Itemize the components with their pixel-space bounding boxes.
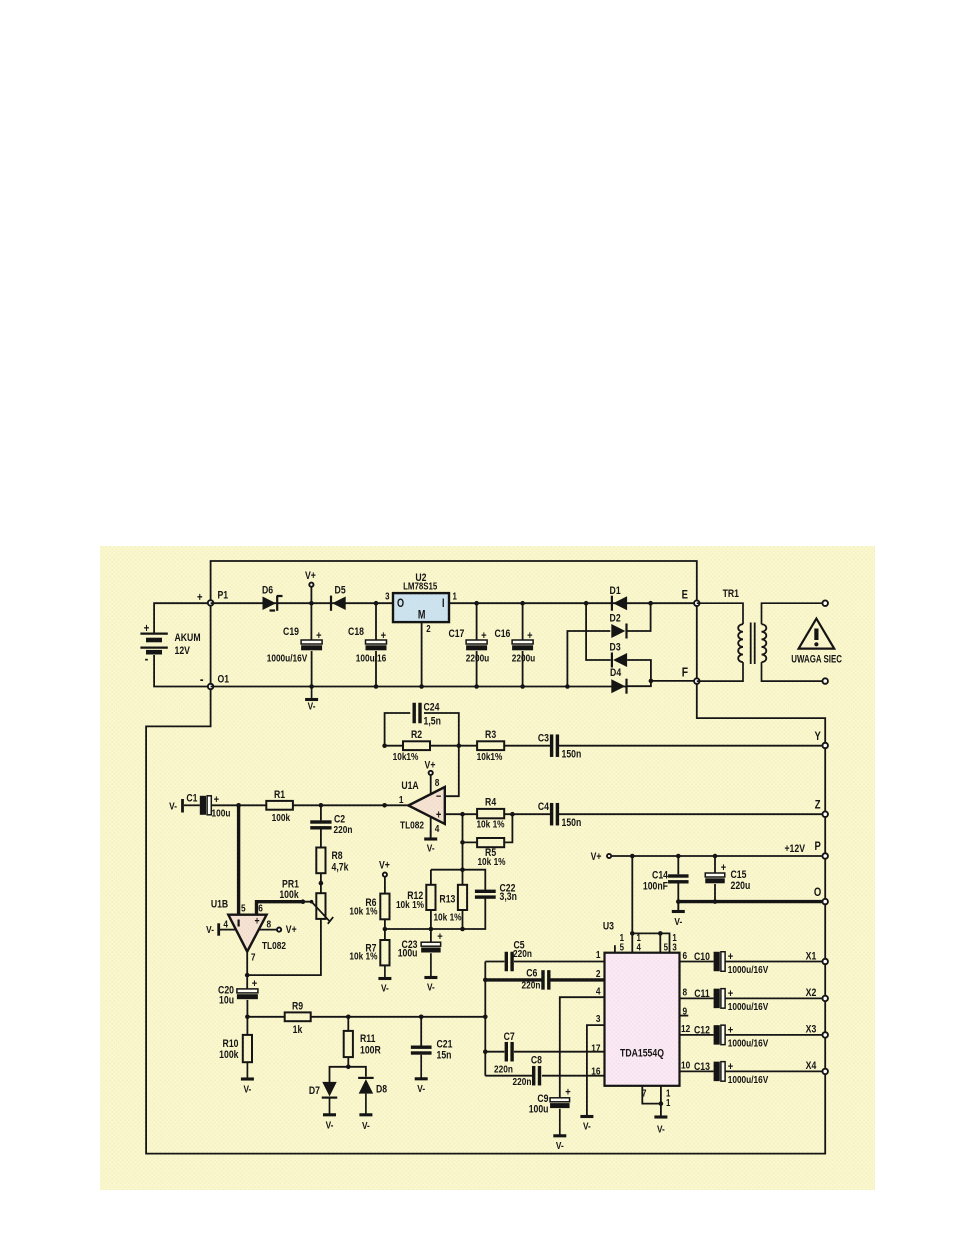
junction bus / C7 row [483,1049,488,1054]
resistor R3 [477,741,504,750]
wire: R2 row [385,745,478,747]
junction network top / R13 [460,867,465,872]
terminal Z [822,811,828,817]
wire: C16 stubs [522,603,524,686]
capacitor C11 [714,988,734,1008]
junction R9 row / input bus [483,1015,488,1020]
wire: C1 to R1 to U1A [211,804,409,806]
capacitor C24 [413,703,422,724]
wire: U3 pin3 to ground [587,1025,605,1116]
junction M/bottom rail [419,684,424,689]
junction PR1 wiper / pin6 wire [301,899,306,904]
wire: U3 pin7 and pin11 to ground [642,1086,661,1117]
resistor R10 [243,1035,252,1062]
ground U1A pin 4 [424,830,437,855]
junction R12 bottom / C23 [429,927,434,932]
op-amp U1B [228,915,266,952]
potentiometer PR1 wiper arrow [304,900,334,924]
wire: pin10 to C13 [680,1070,714,1072]
junction C19/bottom rail [309,684,314,689]
wire: network top row [431,870,485,891]
wire: U1B pin8 stub [259,929,277,931]
capacitor C5 [505,952,514,972]
terminal O [822,899,828,905]
junction C14 / O rail [676,899,681,904]
capacitor C15 [705,862,726,883]
junction C17 top [474,601,479,606]
V+ terminal U1A pin8 [429,771,433,775]
ground below R10 [241,1062,254,1096]
wire: C5 row [485,961,604,963]
diode D5 [331,596,346,611]
capacitor C6 [541,970,550,990]
V+ terminal above D5 [309,583,313,587]
transformer TR1 core [751,623,755,665]
junction plus input / R5 branch [460,812,465,817]
wire: O rail (bold) [678,900,822,903]
diode D1 [612,596,627,611]
junction U1B output / PR1 bottom [245,973,250,978]
wire: battery positive branch [154,603,211,632]
resistor R12 [426,885,435,910]
junction C1/R1/U1B pin5 [236,803,241,808]
wire: V+ rail to P terminal [612,855,822,857]
wire: D3 branch from top rail [586,603,611,660]
wire: bottom rail jog to F [626,681,697,686]
wire: V+ stub down to rail and C19 [310,587,312,640]
diode D7 [322,1082,338,1098]
wire: C24 right leg [424,713,459,796]
terminal X4 [822,1069,828,1075]
ground below C23 [424,953,437,994]
capacitor C23 [421,932,443,953]
capacitor C1 negative end bar [181,799,184,813]
resistor R11 [344,1031,353,1057]
wire: U1B pin6 to PR1 wiper (bold) [257,902,304,915]
junction bottom rail / D2 branch [565,684,570,689]
ground below D7 [323,1098,336,1132]
capacitor C9 [550,1087,571,1108]
terminal O1 [208,684,214,690]
wire: V+ to R6 [384,877,386,894]
wire: C14 bottom to O rail and ground [677,884,679,912]
resistor R7 [380,940,389,965]
wire: D2 row [567,603,650,686]
junction pin5 top [658,931,663,936]
junction R9 row / C21 [419,1015,424,1020]
wire: C3 to terminal Y [558,745,822,747]
diode D8 [358,1078,374,1094]
amplifier U3 TDA1554Q box [605,953,680,1086]
capacitor C1 [200,794,219,815]
capacitor C10 [714,951,734,971]
capacitor C22 [475,890,496,899]
wire: C19 to bottom rail [311,651,313,687]
battery AKUM 12V [140,634,167,653]
junction V+ rail / C14 [676,854,681,859]
junction R6/R7/network [383,927,388,932]
diode D6 [263,596,278,611]
junction pin7/pin11 [659,1101,664,1106]
wire: R12 top stub [430,870,432,885]
resistor R13 [458,885,467,910]
wire: R5 branch vertical [462,814,464,870]
ground U3 pins 7 11 [654,1117,667,1136]
wire: battery negative branch [154,655,211,687]
wire: C11 to X2 [725,997,822,999]
wire: bottom rail O1 to D4 [211,686,626,688]
junction C15 / O rail [713,899,718,904]
junction C20 / R9 row [245,1015,250,1020]
junction C17 bottom [474,684,479,689]
wire: R1 node down to C2 [320,805,322,820]
capacitor C2 [310,820,331,829]
capacitor C14 [668,874,689,883]
wire: C10 to X1 [725,961,822,963]
wire: U1B output down to C20 [246,952,248,989]
transformer TR1 secondary-side connection wires [762,603,822,681]
junction R1 row / R2 left leg [382,803,387,808]
wire: R9 node to R11 [347,1017,349,1031]
capacitor C19 [301,631,322,651]
wire: R12 bottom stub [430,910,432,929]
wire: U1A V- stub [430,816,432,839]
wire: to D7 [330,1067,349,1083]
wire: R6 to R7 [384,919,386,940]
junction R11 / D7 / D8 [346,1065,351,1070]
terminal X3 [822,1032,828,1038]
diode D3 [612,653,627,668]
wire: C18 to bottom rail [375,651,377,687]
resistor R4 [477,809,504,818]
junction C16 bottom [520,684,525,689]
terminal E [694,600,700,606]
terminal X2 [822,996,828,1002]
wire: C6 row (bold) [485,978,604,981]
resistor R1 [266,801,293,810]
capacitor C7 [505,1042,514,1062]
junction R5 left [460,840,465,845]
wire: R13 bottom stub [462,910,464,929]
wire: U3 pin4 to C9 [560,997,605,1098]
junction C18 top rail [374,601,379,606]
transformer TR1 left winding [738,624,743,662]
wire: R9 row [247,1016,485,1018]
wire: C4 to terminal Z [558,813,822,815]
terminal X1 [822,959,828,965]
junction R4 right / R5 return [510,812,515,817]
terminal TR1 mains top [822,600,828,606]
wire: R5 row [463,814,513,842]
wire: C15 bottom stub [714,884,716,902]
U1B minus mark [238,920,240,927]
junction R2 left / C24 [382,743,387,748]
wire: U1B pin5 input (bold) [237,805,240,914]
ground below C21 [415,1055,428,1096]
junction V+ rail / C15 [713,854,718,859]
diode D2 [611,624,626,639]
wire: C7 row [485,1051,604,1053]
wire: top rail P1 to U2 input side [211,602,393,604]
wire: C1 bar to plate [184,804,200,806]
wire: C14 top stub [677,856,679,874]
V+ terminal above R6 [383,873,387,877]
wire: R8 to PR1 [320,873,322,893]
wire: R11 to diode node [347,1057,349,1067]
wire: C15 top stub [714,856,716,873]
junction R2 right / C24 / minus input [457,743,462,748]
op-amp U1A [408,787,444,824]
junction R8/PR1 [319,881,324,886]
terminal P1 [208,600,214,606]
terminal Y [822,743,828,749]
ground below D8 [359,1094,372,1133]
wire: R4 to C4 [504,813,551,815]
resistor R8 [316,848,325,874]
junction R13 bottom [460,927,465,932]
wire: input bus vertical [484,962,486,1076]
junction pin14 top [630,931,635,936]
wire: C8 row [485,1075,604,1077]
junction bus / C6 row [483,978,488,983]
wire: U3 pin15 stub [614,945,616,953]
warning triangle UWAGA SIEC [799,619,835,649]
transformer TR1 right winding [762,624,767,662]
wire: pin9 stub [680,1015,689,1017]
wire: U2 pin M to bottom rail [421,622,423,686]
wire: C13 to X4 [725,1070,822,1072]
wire: R9 node to C21 [420,1017,422,1046]
ground below R7 [378,965,391,994]
capacitor C3 [550,734,559,757]
capacitor C4 [550,803,559,826]
junction F row [649,679,654,684]
wire: C23 top stub [430,929,432,942]
ground V- below bottom rail at C19 [305,687,318,713]
wire: to D8 [348,1067,366,1077]
potentiometer PR1 [316,893,325,919]
capacitor C16 [512,631,533,651]
wire: U1B pin4 stub [220,929,236,931]
terminal P [822,853,828,859]
capacitor C12 [714,1025,734,1045]
wire: pin8 to C11 [680,997,714,999]
wire: V+ drop to U3 pins [632,856,669,953]
wire: C24 left leg [385,713,411,746]
wire: R5 node down to network top [462,870,464,885]
V- bar at U1B pin 4 [217,923,220,935]
wire: C2 to R8 [320,830,322,848]
wire: outer loop (P1 top bypass, E-F column, right terminal column, bottom rail, left side) [146,561,825,1154]
wire: top rail U2 output side to E [449,602,697,604]
capacitor C18 [366,631,387,651]
ground U3 pin3 [580,1117,593,1133]
wire: PR1 bottom to U1B output node [247,919,321,975]
capacitor C8 [532,1066,541,1086]
junction C16 top [520,601,525,606]
wire: D3 to F junction [627,660,651,681]
capacitor C21 [411,1046,432,1055]
wire: divider node to network bottom row [385,898,485,929]
capacitor C13 [714,1061,734,1081]
regulator U2 box [393,593,449,622]
junction V+ rail / U3 pin14 drop [630,854,635,859]
junction rail/V+/C19 [309,601,314,606]
wire: R3 to C3 [504,745,551,747]
wire: pin12 to C12 [680,1034,714,1036]
wire: C17 stubs [476,603,478,686]
schematic yellow background [100,546,875,1190]
terminal TR1 mains bottom [822,678,828,684]
wire: C20 to R10 [246,1000,248,1035]
wire: U1A V+ stub [430,775,432,794]
resistor R2 [403,741,430,750]
diode D4 [611,679,626,694]
resistor R6 [380,894,389,920]
V+ terminal main amp rail [607,854,611,858]
junction R1/C2/R8 [319,803,324,808]
junction R9 row / R11 [346,1015,351,1020]
resistor R5 [477,838,504,847]
ground below C14 [672,902,685,929]
junction C18/bottom rail [374,684,379,689]
terminal F [694,678,700,684]
capacitor C20 [237,978,258,999]
junction top rail / D2 return [648,601,653,606]
capacitor C17 [466,631,487,651]
wire: C18 stub top [375,603,377,640]
wire: C12 to X3 [725,1034,822,1036]
junction top rail / D1-D3 branch [584,601,589,606]
wire: pin6 to C10 [680,961,714,963]
transformer TR1 primary-side connection wires [697,603,743,681]
resistor R9 [285,1012,311,1021]
V+ terminal U1B pin8 [277,928,281,932]
wire: U1A plus input to R4 [445,813,477,815]
ground below C9 [553,1109,566,1153]
diode D6 schottky hooks [270,596,283,611]
